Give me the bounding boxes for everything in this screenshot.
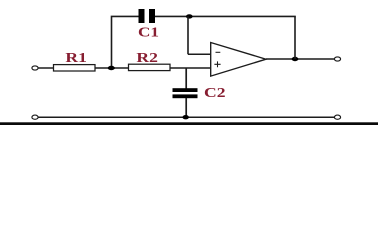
resistor R2 body — [129, 64, 171, 70]
op-amp inverting (-) pin mark — [216, 51, 221, 53]
op-amp U1 triangle body — [211, 43, 266, 77]
svg-text:R2: R2 — [136, 50, 158, 65]
capacitor C2 bottom plate — [173, 94, 198, 98]
wire inverting input horizontal to op-amp — [188, 53, 211, 55]
wire node B to C2 top plate — [185, 68, 187, 89]
node output junction dot — [292, 57, 299, 61]
resistor R1 body — [54, 65, 96, 71]
wire top rail right segment (C1 right plate to feedback corner) — [155, 15, 296, 17]
input terminal (open circle, left) — [32, 66, 38, 70]
wire C2 bottom plate to ground rail — [185, 98, 187, 117]
node junction dot on top rail (inverting tap) — [186, 14, 193, 18]
wire top rail left segment (corner to C1 left plate) — [112, 16, 140, 68]
svg-text:C1: C1 — [138, 25, 159, 40]
ground/common terminal (open circle, bottom right) — [334, 115, 340, 119]
capacitor C2 top plate — [173, 88, 198, 92]
svg-text:C2: C2 — [204, 85, 226, 100]
op-amp non-inverting (+) pin mark — [214, 61, 220, 67]
wire R2 to op-amp non-inverting input — [170, 67, 211, 69]
node junction dot on bottom rail (C2 ground) — [183, 115, 189, 119]
ground/common terminal (open circle, bottom left) — [32, 115, 38, 119]
capacitor C1 left plate — [139, 9, 145, 23]
wire op-amp output — [266, 58, 335, 60]
wire feedback vertical (output up to top rail) — [294, 16, 296, 59]
output terminal (open circle, right) — [334, 57, 340, 61]
node A junction dot (R1/R2/C1 node) — [108, 66, 115, 70]
capacitor C1 right plate — [149, 9, 155, 23]
svg-text:R1: R1 — [65, 50, 87, 65]
wire inverting input vertical drop — [187, 16, 189, 54]
wire bottom common rail — [38, 116, 335, 118]
wire input terminal to R1 — [38, 67, 54, 69]
wire R1 to node A — [95, 67, 129, 69]
bottom border rule — [0, 122, 378, 125]
